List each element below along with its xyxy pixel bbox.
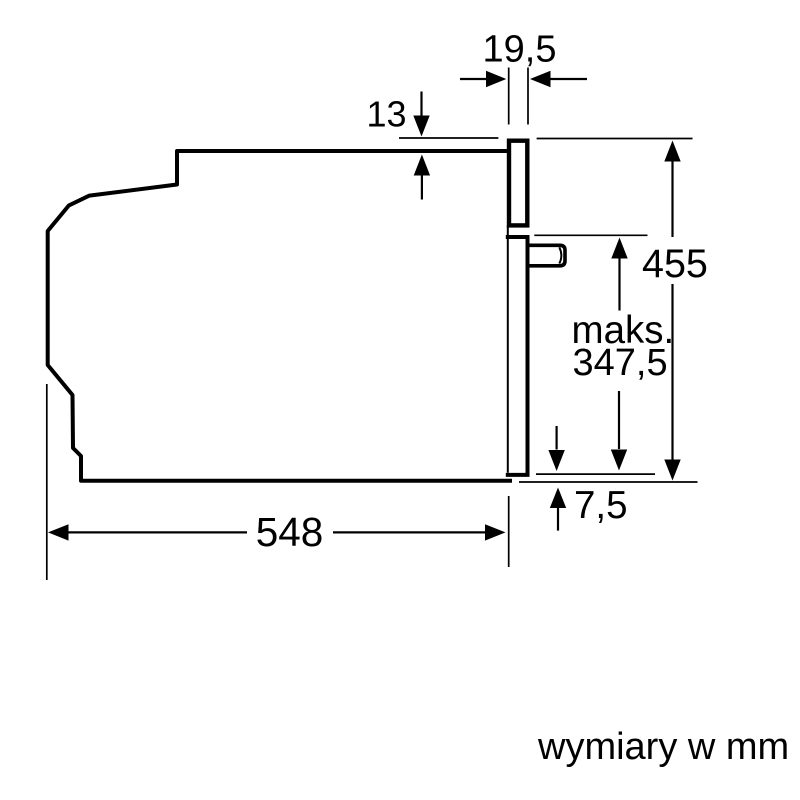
dimension 7,5 extension line xyxy=(536,473,655,475)
front door lower panel top edge xyxy=(506,235,530,239)
front frame upper panel xyxy=(509,141,527,226)
svg-text:13: 13 xyxy=(366,94,406,135)
dimension 7,5 upper arrow xyxy=(555,426,557,450)
dimension 19,5 left extension line xyxy=(508,68,510,125)
dimension 19,5 left arrow xyxy=(460,78,487,80)
dimension 13 lower arrow xyxy=(421,176,423,200)
front door lower panel bottom edge xyxy=(506,473,530,477)
dimension 455 bottom extension line xyxy=(519,481,698,483)
dimension maks 347,5 top extension line xyxy=(534,234,647,236)
dimension 548 left arrow xyxy=(48,524,69,540)
dimension 7,5 lower arrow xyxy=(550,488,566,509)
svg-text:548: 548 xyxy=(256,509,324,555)
dimension 13 upper arrow xyxy=(420,92,422,117)
door handle face curve xyxy=(559,247,561,263)
oven body outline xyxy=(48,151,510,481)
dimension maks vertical line upper xyxy=(611,238,627,259)
svg-text:wymiary w mm: wymiary w mm xyxy=(537,726,789,768)
dimension maks vertical line lower xyxy=(618,391,620,449)
dimension 455 top extension line xyxy=(537,138,693,140)
svg-text:7,5: 7,5 xyxy=(574,484,628,527)
dimension 455 vertical line upper xyxy=(664,141,680,162)
dimension 19,5 right extension line xyxy=(527,68,529,125)
dimension 455 vertical line lower xyxy=(671,284,673,460)
svg-text:347,5: 347,5 xyxy=(573,342,668,384)
dimension 548 left extension line xyxy=(46,384,48,580)
dimension 13 extension line xyxy=(399,137,498,139)
front door lower panel front edge xyxy=(526,235,530,473)
front door lower panel left thin edge xyxy=(507,225,509,472)
dimension 548 right extension line xyxy=(508,496,510,567)
svg-text:455: 455 xyxy=(642,242,708,286)
svg-text:19,5: 19,5 xyxy=(483,29,557,71)
door handle knob xyxy=(530,245,566,265)
dimension 548 right arrow xyxy=(333,531,485,533)
dimension 19,5 right arrow xyxy=(551,78,588,80)
